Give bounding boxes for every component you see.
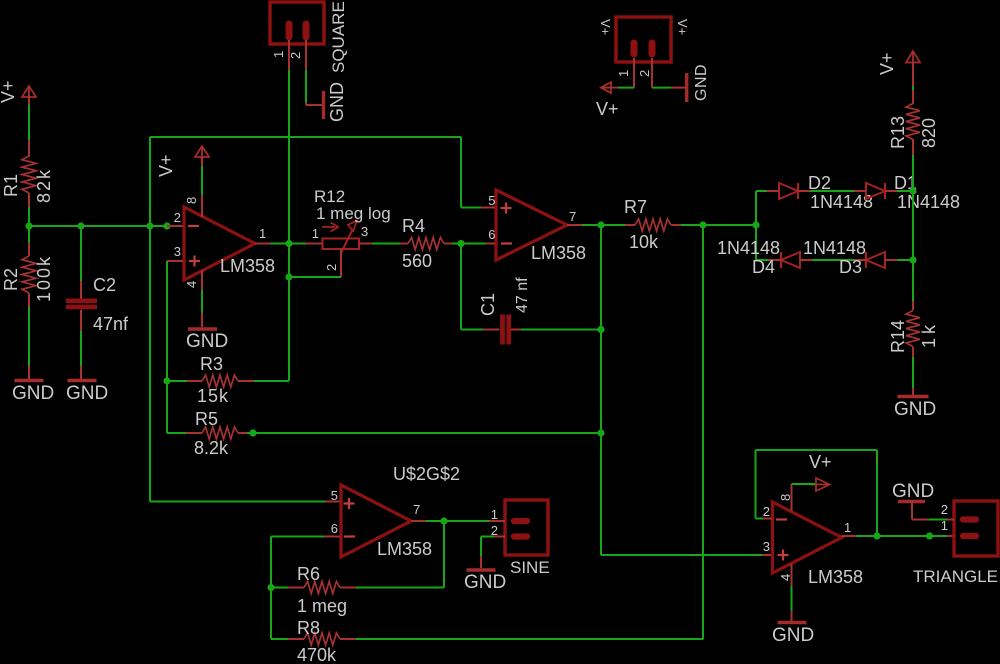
svg-text:6: 6	[488, 227, 495, 242]
wire integrator vertical	[600, 225, 602, 555]
svg-text:1: 1	[271, 51, 286, 58]
wire R2 to ground	[28, 307, 30, 379]
wire R7 to triangle node	[681, 224, 703, 226]
pin 1 lead SQUARE	[271, 40, 289, 70]
svg-text:2: 2	[288, 52, 303, 59]
svg-text:GND: GND	[894, 399, 936, 420]
svg-text:1k: 1k	[919, 321, 939, 348]
svg-text:1: 1	[844, 520, 851, 535]
svg-text:D3: D3	[839, 257, 862, 277]
junction Vref rail tap	[146, 222, 153, 229]
svg-text:C1: C1	[478, 293, 498, 316]
node divider junction	[25, 222, 32, 229]
svg-text:1: 1	[312, 226, 319, 241]
svg-text:2: 2	[941, 502, 948, 517]
wire V+ to R13	[912, 62, 914, 104]
svg-text:8: 8	[778, 494, 793, 501]
svg-text:V+: V+	[596, 99, 619, 119]
svg-text:SINE: SINE	[510, 558, 550, 577]
svg-text:6: 6	[331, 521, 338, 536]
svg-text:2: 2	[763, 504, 770, 519]
svg-text:GND: GND	[66, 383, 108, 404]
svg-text:GND: GND	[12, 383, 54, 404]
ground at SQUARE	[324, 82, 348, 122]
wire V+ to pin 8 U1A	[201, 166, 203, 195]
wire output to TRIANGLE connector	[877, 535, 930, 537]
svg-text:8: 8	[184, 197, 199, 204]
pin 6 lead U3	[324, 521, 355, 537]
diode D1 1N4148	[854, 173, 960, 212]
resistor R3	[187, 354, 238, 406]
wire D4 to D3	[799, 259, 866, 261]
svg-text:15k: 15k	[197, 386, 229, 406]
wire C2 bottom to ground	[80, 310, 82, 379]
svg-text:V+: V+	[156, 154, 176, 177]
svg-text:7: 7	[569, 209, 576, 224]
svg-text:V+: V+	[0, 80, 18, 103]
resistor R4	[402, 216, 452, 271]
wire square net vertical	[288, 70, 290, 381]
svg-text:R13: R13	[888, 116, 908, 149]
svg-text:R4: R4	[402, 216, 425, 236]
wire R13 to diode node	[912, 139, 914, 191]
wire U1A pin3 vertical net	[166, 261, 168, 433]
pin 8 power lead U1A	[184, 195, 202, 217]
wire to TRIANGLE pin1	[930, 535, 955, 537]
wire R12 to R4	[359, 243, 408, 245]
svg-text:10k: 10k	[629, 232, 659, 252]
svg-text:1 meg log: 1 meg log	[316, 204, 391, 223]
ground at power connector	[687, 64, 710, 102]
pin 3 lead U4	[763, 539, 789, 561]
resistor R8	[288, 618, 356, 664]
svg-text:3: 3	[763, 539, 770, 554]
wire V+ to R1	[28, 97, 30, 157]
pin 8 power lead U4	[778, 484, 793, 511]
wire U4 feedback	[756, 450, 878, 536]
resistor R2	[1, 255, 54, 307]
node diode bridge junction	[752, 221, 759, 228]
svg-text:SQUARE: SQUARE	[329, 1, 348, 73]
R12 wiper lead	[340, 249, 342, 277]
ground below R2	[12, 381, 54, 405]
diode D3 1N4148	[803, 238, 897, 277]
wire U4 output	[856, 535, 877, 537]
wire R3 left to pin3 net	[167, 380, 187, 382]
svg-text:TRIANGLE: TRIANGLE	[913, 567, 998, 586]
wire diode branch vertical	[755, 191, 757, 260]
junction at U1A pin 2	[163, 222, 170, 229]
wire power pin1 to V+	[618, 87, 634, 89]
wire R6 feedback	[356, 521, 444, 588]
wire C1 right	[511, 329, 601, 331]
wire R6 left	[271, 587, 288, 589]
svg-text:GND: GND	[693, 64, 710, 101]
svg-text:3: 3	[174, 244, 181, 259]
svg-text:R14: R14	[888, 320, 908, 353]
svg-text:R7: R7	[624, 197, 647, 217]
wire TRIANGLE pin2 to ground	[929, 519, 947, 521]
svg-text:3: 3	[361, 224, 368, 239]
svg-text:82k: 82k	[34, 168, 54, 203]
svg-text:2: 2	[637, 70, 652, 77]
pin 2 lead SQUARE	[288, 40, 306, 70]
junction R5 right	[249, 429, 256, 436]
ground below U1A	[186, 329, 228, 352]
connector TRIANGLE	[913, 501, 998, 586]
svg-text:5: 5	[331, 488, 338, 503]
svg-text:4: 4	[184, 281, 199, 288]
wire triangle node to U4 pin3	[601, 554, 772, 556]
ground below R14	[894, 397, 936, 421]
ground at TRIANGLE	[892, 481, 934, 520]
node triangle junction	[699, 221, 706, 228]
svg-text:2: 2	[324, 264, 339, 271]
wire U1A output to node	[270, 243, 289, 245]
wire pin8 to V+	[792, 483, 816, 485]
svg-text:R1: R1	[1, 174, 21, 197]
op-amp U1B LM358 body	[496, 190, 586, 263]
node U3 output junction	[440, 517, 447, 524]
wire R5 left lead	[167, 432, 202, 434]
svg-text:R8: R8	[297, 618, 320, 638]
wire SINE pin2 to ground	[481, 537, 494, 569]
wire R12 wiper to output node	[289, 276, 341, 278]
connector SQUARE	[270, 1, 348, 73]
wire pin4 to ground U4	[791, 586, 793, 621]
pin 1 output lead U4	[842, 520, 856, 536]
pin 6 lead U1B	[461, 227, 512, 244]
wire C1 left branch	[461, 244, 500, 330]
wire SQUARE pin2 to ground	[306, 70, 322, 105]
resistor R5	[194, 409, 247, 458]
V+ symbol above U1A	[156, 146, 209, 177]
wire D1 to R13 node	[884, 190, 913, 192]
svg-text:560: 560	[402, 251, 432, 271]
pin 1 lead power	[616, 58, 634, 88]
pin 5 lead U3	[325, 488, 355, 509]
svg-text:2: 2	[174, 210, 181, 225]
capacitor C1	[478, 277, 531, 345]
wire U1B output to node	[582, 224, 601, 226]
wire Vref top rail	[150, 136, 461, 138]
svg-text:LM358: LM358	[808, 567, 863, 587]
wire R8 left	[271, 638, 288, 640]
resistor R14	[888, 311, 939, 354]
junction C1 right	[597, 326, 604, 333]
resistor R13	[888, 104, 939, 150]
node D1 junction	[909, 187, 916, 194]
pin 4 power lead U4	[778, 564, 793, 586]
junction R6 left	[267, 584, 274, 591]
wire output to SINE connector	[444, 520, 504, 522]
svg-text:LM358: LM358	[531, 243, 586, 263]
node U4 output junction	[873, 532, 880, 539]
node D3 junction	[909, 256, 916, 263]
wire R14 to ground	[912, 347, 914, 395]
svg-text:100k: 100k	[34, 255, 54, 302]
wire Vref right vertical to U1B pin 5	[460, 137, 462, 208]
svg-text:470k: 470k	[297, 645, 337, 664]
connector SINE	[505, 500, 550, 577]
svg-text:V+: V+	[675, 19, 690, 35]
svg-text:R3: R3	[200, 354, 223, 374]
svg-text:U$2G$2: U$2G$2	[393, 464, 460, 484]
pin 2 lead SINE	[491, 523, 505, 538]
svg-text:R2: R2	[1, 268, 21, 291]
svg-text:1N4148: 1N4148	[810, 192, 873, 212]
svg-text:47 nf: 47 nf	[514, 277, 531, 313]
wire R4 to U1B pin6 node	[452, 243, 461, 245]
pin 1 lead SINE	[491, 507, 505, 522]
svg-text:5: 5	[488, 193, 495, 208]
op-amp U1A LM358 body	[184, 207, 275, 280]
svg-text:V+: V+	[809, 452, 832, 472]
svg-text:8.2k: 8.2k	[194, 438, 229, 458]
diode D4 1N4148	[717, 238, 812, 277]
pin 1 output lead U1A	[255, 226, 270, 244]
capacitor C2	[66, 275, 129, 334]
wire to R14	[912, 260, 914, 310]
V+ symbol at U4	[809, 452, 832, 491]
svg-text:1: 1	[259, 226, 266, 241]
pin 7 output lead U3	[411, 502, 426, 521]
wire power pin2 to ground	[652, 87, 686, 89]
svg-text:V+: V+	[877, 52, 897, 75]
ground below U4	[772, 623, 814, 647]
svg-text:LM358: LM358	[220, 256, 275, 276]
svg-text:V+: V+	[598, 19, 613, 35]
pin 1 lead TRIANGLE	[941, 518, 948, 533]
svg-text:GND: GND	[892, 481, 934, 502]
pin 5 lead U1B	[461, 193, 512, 214]
resistor R7	[624, 197, 681, 252]
node TRIANGLE pin1 junction	[926, 532, 933, 539]
ground below C2	[66, 381, 108, 405]
wire R8 to triangle node	[356, 225, 703, 639]
op-amp U4 LM358 body	[773, 502, 864, 587]
wire diode node vertical	[912, 191, 914, 260]
pin 3 lead U1A	[167, 244, 200, 267]
junction R5 rail	[597, 429, 604, 436]
resistor R6	[288, 564, 356, 616]
junction R3 left	[163, 377, 170, 384]
wire divider to R2	[28, 226, 30, 256]
wire to diode bridge	[703, 224, 756, 226]
svg-text:1: 1	[491, 507, 498, 522]
svg-text:1N4148: 1N4148	[897, 192, 960, 212]
svg-text:1N4148: 1N4148	[803, 238, 866, 258]
wire U3 output	[426, 520, 444, 522]
node U1B output junction	[597, 221, 604, 228]
wire R1 to divider node	[28, 207, 30, 226]
power V+ symbol (left, feeds R1)	[0, 80, 36, 103]
svg-text:GND: GND	[327, 82, 347, 122]
diode D2 1N4148	[767, 173, 873, 212]
svg-text:R5: R5	[195, 409, 218, 429]
wire U1B out to R7	[601, 224, 635, 226]
wire Vref left vertical	[149, 137, 151, 502]
wire pin6 net U3	[271, 537, 324, 640]
op-amp U$2G$2 LM358 body	[341, 464, 460, 559]
V+ symbol at power connector	[596, 82, 619, 119]
wire pin 4 to ground U1A	[201, 290, 203, 327]
pin 2 lead TRIANGLE	[929, 502, 954, 520]
svg-text:1N4148: 1N4148	[717, 238, 780, 258]
resistor R1	[1, 156, 54, 207]
wire D3 to R14 node	[884, 259, 913, 261]
svg-text:D4: D4	[752, 257, 775, 277]
svg-text:GND: GND	[772, 625, 814, 646]
wire to D4	[756, 259, 781, 261]
wire C2 top	[80, 226, 82, 299]
node R4 right junction	[457, 240, 464, 247]
wire to D2	[756, 190, 779, 192]
svg-text:1 meg: 1 meg	[297, 596, 347, 616]
svg-text:C2: C2	[93, 275, 116, 295]
svg-text:820: 820	[919, 118, 939, 148]
svg-text:R6: R6	[297, 564, 320, 584]
pin 2 lead power	[637, 58, 652, 88]
pin 2 lead U1A	[167, 210, 199, 226]
ground at SINE	[464, 570, 506, 593]
connector power header	[598, 17, 690, 62]
pin 2 lead U4	[763, 504, 787, 520]
svg-text:LM358: LM358	[377, 539, 432, 559]
wire Vref horizontal (divider to op-amp U1A pin 2)	[29, 225, 167, 227]
power V+ symbol (top right)	[877, 51, 920, 75]
svg-text:GND: GND	[186, 331, 228, 352]
wire D2 to D1	[797, 190, 866, 192]
svg-text:GND: GND	[464, 572, 506, 593]
junction R12 wiper tap	[285, 273, 292, 280]
node U1A output junction	[285, 240, 292, 247]
wire R3 to output node	[238, 380, 289, 382]
pin 7 output lead U1B	[567, 209, 582, 225]
svg-text:D2: D2	[808, 173, 831, 193]
potentiometer R12	[312, 187, 391, 271]
pin 4 power lead U1A	[184, 270, 202, 290]
svg-text:1: 1	[616, 70, 631, 77]
wire R5 to integrator net	[247, 432, 601, 434]
svg-text:47nf: 47nf	[93, 314, 129, 334]
wire Vref rail to op-amp U3 pin 5	[150, 501, 325, 503]
wire output node to R12	[289, 243, 322, 245]
svg-text:7: 7	[413, 502, 420, 517]
svg-text:4: 4	[778, 574, 793, 581]
junction C2 tap	[77, 222, 84, 229]
